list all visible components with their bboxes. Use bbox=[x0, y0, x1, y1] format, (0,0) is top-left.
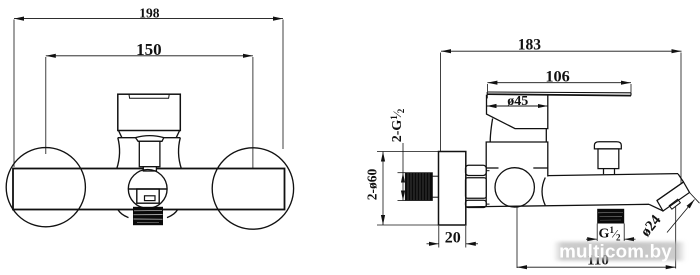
svg-text:ø24: ø24 bbox=[638, 212, 665, 240]
svg-text:multicom.by: multicom.by bbox=[559, 240, 672, 261]
svg-text:2-G1⁄2: 2-G1⁄2 bbox=[389, 108, 406, 142]
svg-text:20: 20 bbox=[445, 229, 461, 246]
svg-text:198: 198 bbox=[139, 6, 160, 21]
svg-text:2-ø60: 2-ø60 bbox=[364, 169, 379, 201]
svg-text:106: 106 bbox=[545, 66, 569, 85]
svg-text:183: 183 bbox=[518, 36, 542, 53]
svg-text:ø45: ø45 bbox=[507, 94, 528, 109]
svg-text:150: 150 bbox=[136, 40, 162, 59]
